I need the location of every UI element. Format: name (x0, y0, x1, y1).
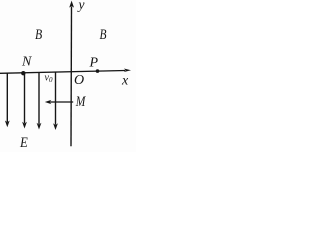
svg-text:M: M (75, 94, 87, 110)
velocity arrow at M pointing left (49, 101, 73, 103)
y-axis arrowhead (69, 1, 74, 8)
svg-text:v0: v0 (45, 73, 53, 85)
svg-text:O: O (74, 73, 84, 88)
wire x-axis (0, 71, 125, 74)
E-field arrow 4 (55, 72, 57, 125)
svg-text:E: E (19, 135, 28, 151)
svg-text:P: P (89, 56, 99, 71)
svg-text:B: B (35, 27, 42, 43)
svg-text:N: N (21, 55, 32, 70)
node P (96, 69, 100, 73)
wire y-axis (70, 7, 73, 147)
E-field arrow 2 (24, 73, 26, 123)
x-axis arrowhead (124, 69, 131, 73)
E-field arrow 1 (6, 73, 8, 122)
svg-text:y: y (77, 0, 85, 12)
svg-text:B: B (100, 27, 107, 43)
svg-text:x: x (121, 74, 129, 89)
node N (21, 71, 25, 75)
E-field arrow 3 (38, 73, 40, 125)
